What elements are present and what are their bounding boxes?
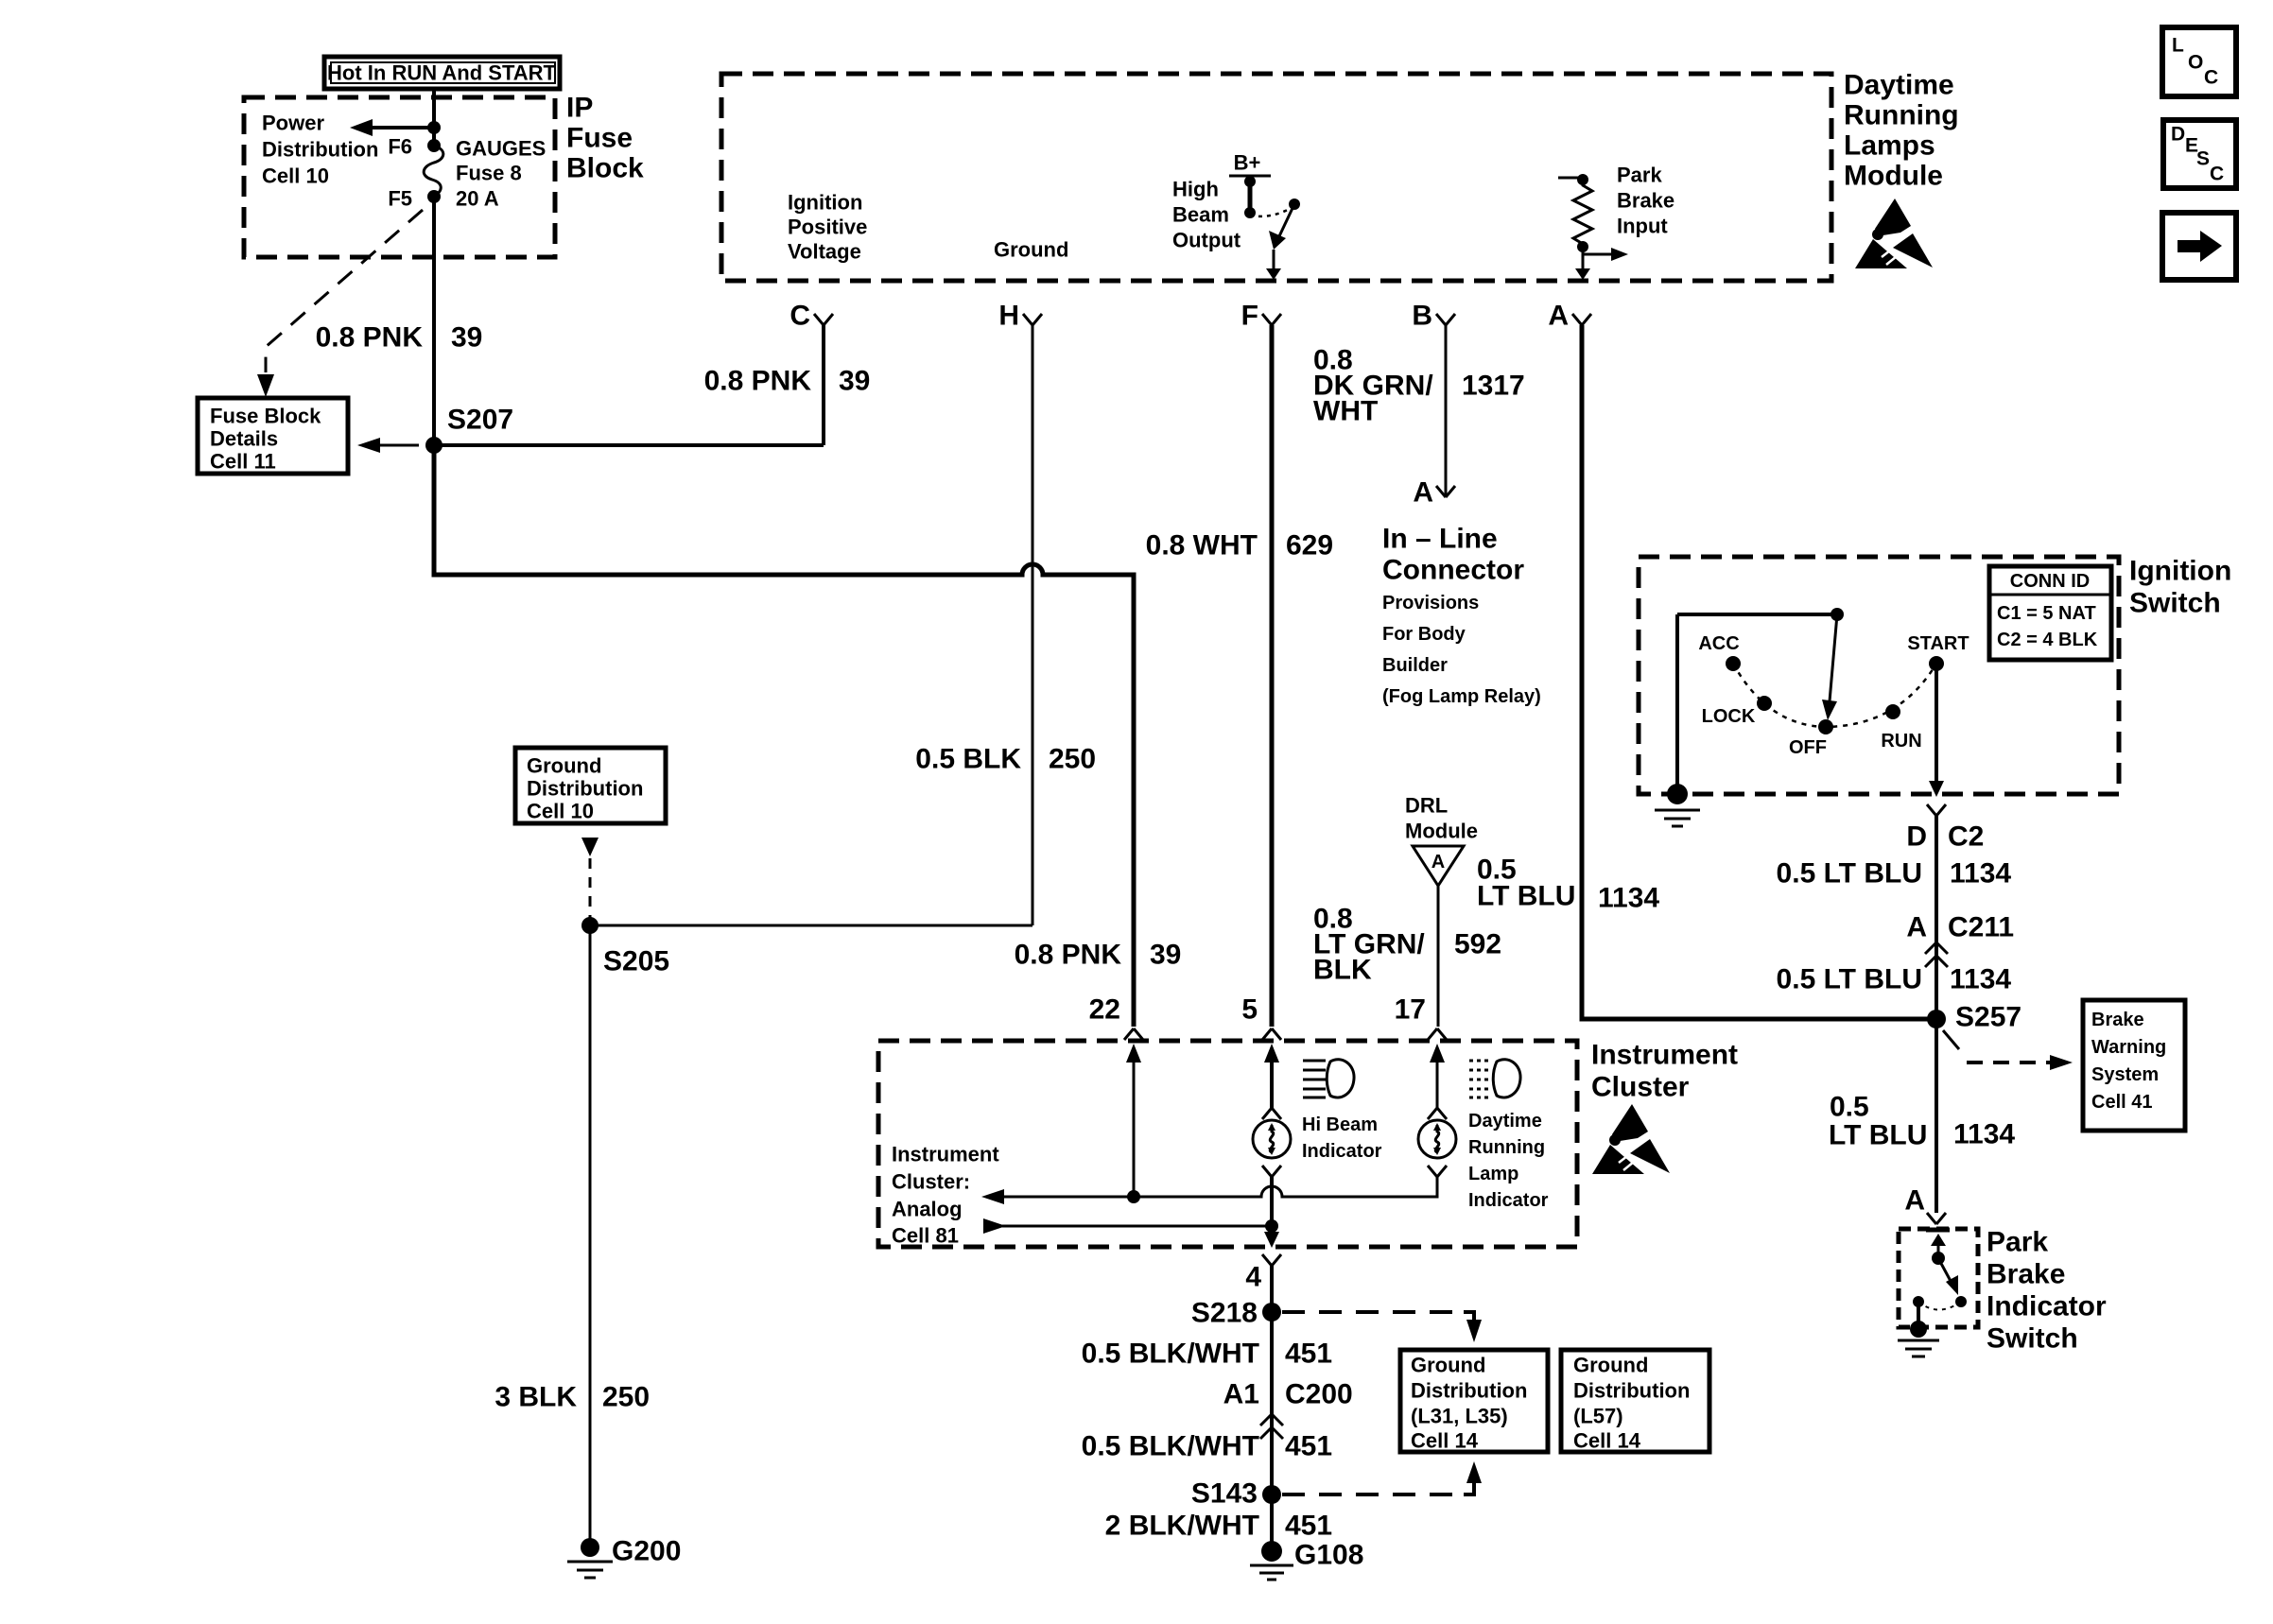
svg-text:Brake: Brake: [2091, 1010, 2144, 1030]
svg-text:S218: S218: [1191, 1298, 1258, 1329]
svg-text:A1: A1: [1223, 1379, 1259, 1410]
svg-text:Indicator: Indicator: [1302, 1141, 1382, 1162]
svg-text:39: 39: [451, 322, 482, 354]
svg-text:39: 39: [1150, 940, 1181, 971]
svg-text:L: L: [2172, 35, 2184, 57]
svg-text:451: 451: [1285, 1511, 1332, 1542]
svg-text:Lamps: Lamps: [1844, 130, 1935, 162]
svg-text:C: C: [2204, 67, 2218, 89]
svg-text:Analog: Analog: [892, 1198, 963, 1221]
svg-text:Cell 10: Cell 10: [262, 164, 329, 188]
svg-text:For Body: For Body: [1382, 624, 1466, 645]
svg-text:A: A: [1904, 1185, 1925, 1217]
svg-text:D: D: [2171, 124, 2185, 146]
svg-text:Running: Running: [1844, 100, 1959, 131]
svg-text:Indicator: Indicator: [1468, 1190, 1549, 1211]
svg-text:B: B: [1412, 301, 1432, 332]
svg-text:592: 592: [1454, 929, 1501, 960]
svg-text:451: 451: [1285, 1431, 1332, 1462]
svg-text:Ignition: Ignition: [2129, 556, 2231, 587]
svg-text:Input: Input: [1617, 215, 1668, 238]
svg-text:O: O: [2188, 52, 2203, 74]
svg-text:17: 17: [1395, 994, 1426, 1026]
svg-text:S257: S257: [1955, 1002, 2021, 1033]
svg-text:Distribution: Distribution: [527, 777, 643, 801]
svg-text:2 BLK/WHT: 2 BLK/WHT: [1105, 1511, 1259, 1542]
svg-text:0.8 PNK: 0.8 PNK: [316, 322, 424, 354]
svg-text:4: 4: [1245, 1262, 1261, 1293]
svg-text:F5: F5: [388, 187, 412, 211]
svg-text:Ground: Ground: [1411, 1354, 1485, 1377]
svg-text:C200: C200: [1285, 1379, 1353, 1410]
svg-text:Instrument: Instrument: [1591, 1040, 1738, 1071]
svg-text:Module: Module: [1844, 161, 1943, 192]
svg-text:Indicator: Indicator: [1987, 1291, 2107, 1322]
svg-text:Voltage: Voltage: [788, 240, 861, 264]
svg-text:Cell 14: Cell 14: [1411, 1429, 1479, 1453]
svg-text:High: High: [1172, 178, 1219, 201]
svg-text:1134: 1134: [1598, 883, 1659, 914]
svg-text:F6: F6: [388, 135, 412, 159]
svg-text:Module: Module: [1405, 820, 1478, 843]
svg-text:0.5 BLK/WHT: 0.5 BLK/WHT: [1082, 1431, 1259, 1462]
svg-text:Lamp: Lamp: [1468, 1164, 1518, 1184]
svg-text:GAUGES: GAUGES: [456, 137, 546, 161]
svg-text:Ground: Ground: [527, 754, 601, 778]
svg-text:A: A: [1431, 852, 1445, 872]
svg-text:OFF: OFF: [1789, 737, 1827, 758]
svg-text:Details: Details: [210, 427, 278, 451]
svg-text:1134: 1134: [1950, 858, 2011, 890]
svg-text:Positive: Positive: [788, 216, 867, 239]
svg-text:Park: Park: [1617, 164, 1662, 187]
svg-text:Distribution: Distribution: [1573, 1379, 1690, 1403]
svg-text:WHT: WHT: [1313, 396, 1378, 427]
svg-text:Brake: Brake: [1987, 1259, 2065, 1290]
svg-text:Block: Block: [566, 153, 644, 184]
svg-text:A: A: [1413, 477, 1433, 509]
svg-text:Switch: Switch: [1987, 1323, 2078, 1355]
svg-text:B+: B+: [1234, 151, 1261, 175]
svg-text:Daytime: Daytime: [1468, 1111, 1542, 1132]
svg-text:CONN ID: CONN ID: [2010, 571, 2090, 592]
svg-text:RUN: RUN: [1881, 731, 1921, 752]
svg-text:H: H: [998, 301, 1019, 332]
svg-text:C2: C2: [1948, 821, 1984, 853]
svg-text:Cluster:: Cluster:: [892, 1170, 970, 1194]
svg-text:Cell 10: Cell 10: [527, 800, 594, 823]
svg-text:LT BLU: LT BLU: [1829, 1120, 1927, 1151]
svg-text:(L31, L35): (L31, L35): [1411, 1405, 1508, 1428]
svg-text:0.8 WHT: 0.8 WHT: [1146, 530, 1258, 561]
svg-text:C: C: [2210, 164, 2224, 185]
svg-text:C211: C211: [1948, 912, 2014, 943]
svg-text:Output: Output: [1172, 229, 1241, 252]
svg-text:3 BLK: 3 BLK: [495, 1382, 577, 1413]
svg-text:Fuse: Fuse: [566, 123, 633, 154]
svg-text:A: A: [1906, 912, 1927, 943]
svg-text:START: START: [1907, 633, 1969, 654]
svg-text:0.5 LT BLU: 0.5 LT BLU: [1777, 858, 1922, 890]
svg-text:Switch: Switch: [2129, 588, 2221, 619]
svg-text:Ground: Ground: [994, 238, 1068, 262]
svg-text:0.5 BLK/WHT: 0.5 BLK/WHT: [1082, 1339, 1259, 1370]
svg-text:G108: G108: [1294, 1540, 1363, 1571]
svg-text:C1 = 5 NAT: C1 = 5 NAT: [1997, 603, 2096, 624]
svg-text:20 A: 20 A: [456, 187, 499, 211]
svg-text:(L57): (L57): [1573, 1405, 1623, 1428]
svg-text:Ground: Ground: [1573, 1354, 1648, 1377]
svg-text:Cell 14: Cell 14: [1573, 1429, 1641, 1453]
svg-text:S205: S205: [603, 946, 669, 977]
svg-text:Cell 41: Cell 41: [2091, 1092, 2152, 1113]
svg-text:Fuse 8: Fuse 8: [456, 162, 522, 185]
svg-text:In – Line: In – Line: [1382, 524, 1498, 555]
svg-text:C: C: [789, 301, 810, 332]
svg-text:DRL: DRL: [1405, 794, 1448, 818]
svg-text:Brake: Brake: [1617, 189, 1674, 213]
svg-text:BLK: BLK: [1313, 955, 1372, 986]
svg-text:Cluster: Cluster: [1591, 1072, 1690, 1103]
svg-text:39: 39: [839, 366, 870, 397]
svg-text:Warning: Warning: [2091, 1037, 2166, 1058]
svg-text:Hi Beam: Hi Beam: [1302, 1114, 1378, 1135]
svg-text:Distribution: Distribution: [1411, 1379, 1527, 1403]
svg-text:Builder: Builder: [1382, 655, 1448, 676]
svg-text:Park: Park: [1987, 1227, 2048, 1258]
svg-text:Instrument: Instrument: [892, 1143, 999, 1166]
svg-text:LOCK: LOCK: [1702, 706, 1756, 727]
svg-text:1134: 1134: [1950, 964, 2011, 995]
svg-text:22: 22: [1089, 994, 1120, 1026]
svg-text:250: 250: [602, 1382, 650, 1413]
svg-text:IP: IP: [566, 93, 593, 124]
svg-text:Distribution: Distribution: [262, 138, 378, 162]
svg-text:S: S: [2196, 148, 2210, 170]
svg-text:0.8 PNK: 0.8 PNK: [704, 366, 812, 397]
svg-text:Fuse Block: Fuse Block: [210, 405, 321, 428]
svg-text:5: 5: [1241, 994, 1258, 1026]
svg-text:G200: G200: [612, 1536, 681, 1567]
svg-text:Running: Running: [1468, 1137, 1545, 1158]
svg-text:Beam: Beam: [1172, 203, 1229, 227]
svg-text:Daytime: Daytime: [1844, 70, 1954, 101]
svg-text:Ignition: Ignition: [788, 191, 862, 215]
svg-text:S207: S207: [447, 405, 513, 436]
svg-text:Power: Power: [262, 112, 324, 135]
svg-text:Provisions: Provisions: [1382, 593, 1479, 613]
svg-text:Cell 11: Cell 11: [210, 450, 276, 474]
svg-text:0.5 LT BLU: 0.5 LT BLU: [1777, 964, 1922, 995]
svg-text:Connector: Connector: [1382, 555, 1524, 586]
svg-text:LT BLU: LT BLU: [1477, 881, 1575, 912]
svg-text:0.8 PNK: 0.8 PNK: [1015, 940, 1122, 971]
svg-text:S143: S143: [1191, 1478, 1258, 1510]
svg-text:Hot In RUN And START: Hot In RUN And START: [327, 61, 557, 85]
svg-text:0.5 BLK: 0.5 BLK: [915, 744, 1021, 775]
svg-text:System: System: [2091, 1064, 2159, 1085]
svg-text:1134: 1134: [1953, 1119, 2015, 1150]
svg-text:1317: 1317: [1462, 371, 1525, 402]
svg-text:250: 250: [1049, 744, 1096, 775]
svg-text:Cell 81: Cell 81: [892, 1224, 959, 1248]
svg-text:C2 = 4 BLK: C2 = 4 BLK: [1997, 630, 2098, 650]
svg-text:0.5: 0.5: [1830, 1092, 1869, 1123]
svg-text:629: 629: [1286, 530, 1333, 561]
svg-text:ACC: ACC: [1698, 633, 1739, 654]
svg-text:D: D: [1906, 821, 1927, 853]
svg-text:F: F: [1241, 301, 1258, 332]
svg-text:(Fog Lamp Relay): (Fog Lamp Relay): [1382, 686, 1541, 707]
svg-text:451: 451: [1285, 1339, 1332, 1370]
svg-text:A: A: [1548, 301, 1569, 332]
